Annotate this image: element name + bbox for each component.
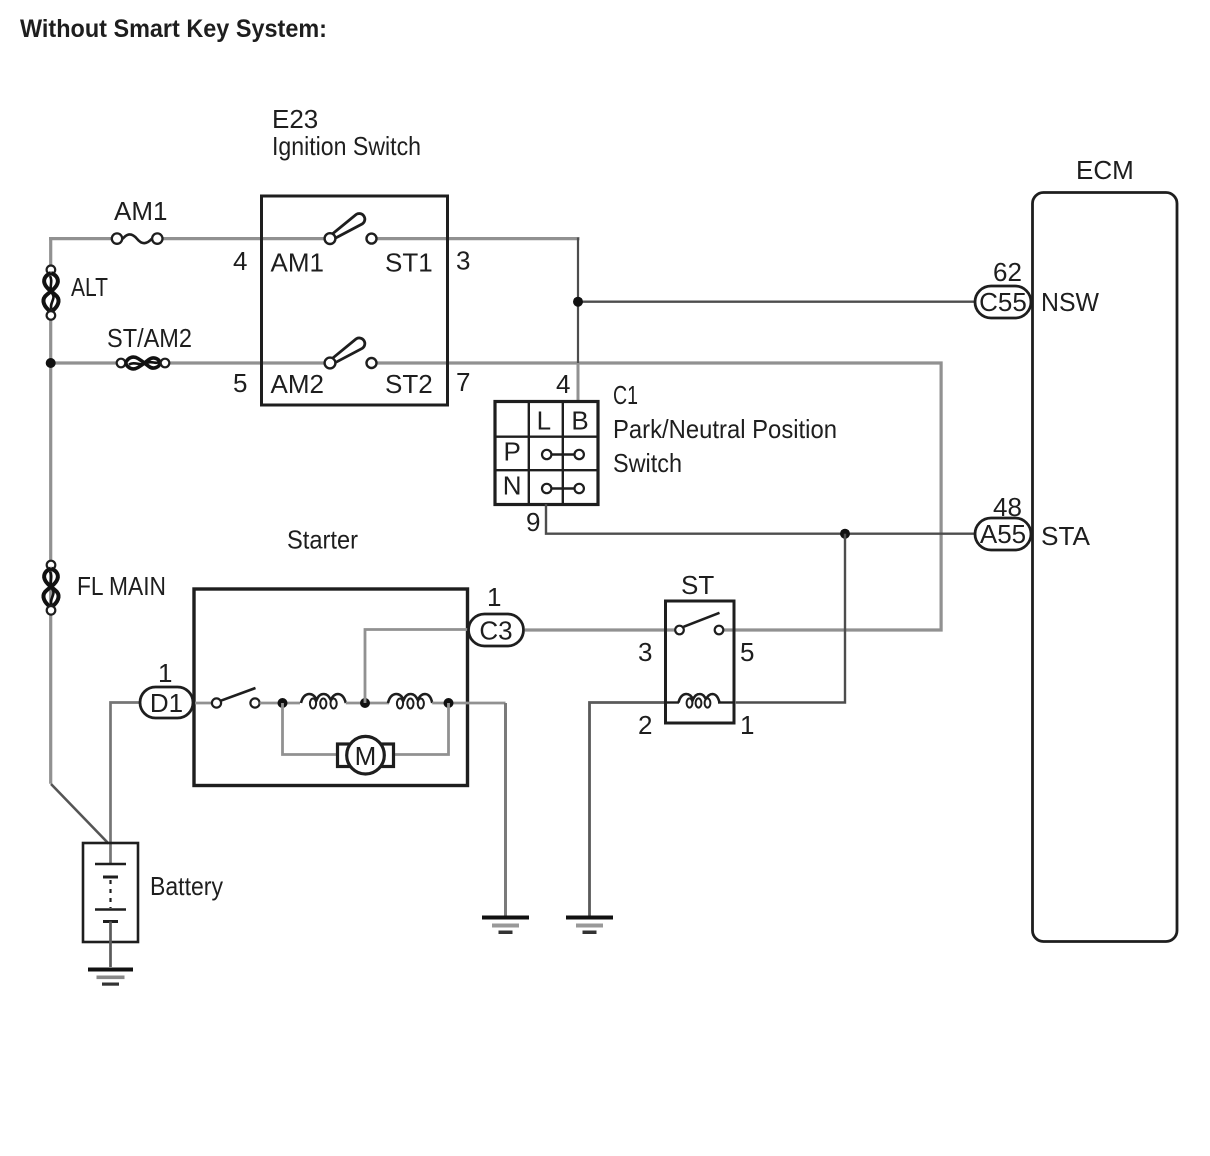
svg-text:AM1: AM1 bbox=[271, 248, 324, 278]
battery box bbox=[83, 843, 138, 942]
wire ST2 row mid segment bbox=[169, 361, 324, 364]
battery plates bbox=[95, 863, 126, 866]
wire battery negative stem bbox=[109, 922, 112, 968]
wire node to C55 NSW bbox=[578, 301, 976, 303]
fuse AM1 element bbox=[123, 234, 152, 243]
wire relay pin2 to ground bbox=[590, 703, 665, 918]
ECM box bbox=[1033, 193, 1178, 942]
ground relay bbox=[566, 916, 613, 935]
fusible link FL MAIN bottom terminal bbox=[47, 606, 56, 615]
svg-text:1: 1 bbox=[740, 710, 754, 740]
svg-text:FL MAIN: FL MAIN bbox=[77, 571, 166, 601]
svg-text:4: 4 bbox=[556, 369, 570, 399]
relay switch right contact bbox=[715, 626, 724, 635]
node junction left bus / ST2 row bbox=[46, 358, 56, 368]
svg-text:E23: E23 bbox=[272, 104, 318, 134]
svg-text:ST/AM2: ST/AM2 bbox=[107, 323, 192, 353]
svg-text:C3: C3 bbox=[479, 616, 512, 646]
starter switch right contact bbox=[250, 698, 259, 707]
svg-text:1: 1 bbox=[487, 582, 501, 612]
svg-text:62: 62 bbox=[993, 257, 1022, 287]
relay switch lever bbox=[684, 613, 720, 627]
connector D1 bbox=[140, 687, 193, 718]
fusible link FL MAIN element bbox=[44, 569, 58, 608]
svg-text:AM1: AM1 bbox=[114, 196, 167, 226]
svg-text:Switch: Switch bbox=[613, 448, 682, 478]
wire C3 to relay pin 3 bbox=[525, 628, 675, 631]
fusible link ST/AM2 element bbox=[126, 357, 161, 368]
svg-text:C55: C55 bbox=[979, 287, 1027, 317]
svg-text:ST1: ST1 bbox=[385, 248, 433, 278]
svg-text:ECM: ECM bbox=[1076, 155, 1134, 185]
wire ST2 output to relay vertical bbox=[377, 363, 941, 630]
wire AM1 row mid segment bbox=[163, 237, 325, 240]
wire ST1 output to node bbox=[377, 237, 580, 240]
fusible link ALT top terminal bbox=[47, 266, 56, 275]
svg-text:Starter: Starter bbox=[287, 525, 358, 555]
wire coil to node C bbox=[432, 702, 505, 705]
ignition switch box E23 bbox=[262, 196, 448, 405]
relay coil leads bbox=[666, 701, 680, 703]
svg-text:ST2: ST2 bbox=[385, 369, 433, 399]
motor M brushes bbox=[338, 744, 352, 767]
fusible link ALT element bbox=[44, 273, 58, 312]
coil starter pull-in bbox=[388, 694, 432, 703]
connector C3 bbox=[469, 614, 524, 646]
svg-text:D1: D1 bbox=[150, 688, 183, 718]
ground starter motor bbox=[482, 916, 529, 935]
fusible link ALT bottom terminal bbox=[47, 311, 56, 320]
starter switch lever bbox=[221, 688, 256, 701]
coil starter hold-in bbox=[301, 694, 346, 703]
wire AM1 row left segment bbox=[49, 237, 112, 240]
node junction NSW branch bbox=[573, 297, 583, 307]
svg-text:M: M bbox=[355, 741, 377, 771]
svg-text:A55: A55 bbox=[980, 519, 1026, 549]
svg-text:ALT: ALT bbox=[71, 272, 108, 302]
wire between coils bbox=[346, 702, 389, 705]
wire ground stem starter bbox=[504, 703, 507, 917]
wire STA branch down to relay coil pin1 bbox=[736, 534, 845, 703]
fuse AM1 left terminal bbox=[112, 233, 122, 243]
svg-text:L: L bbox=[537, 406, 551, 436]
svg-text:ST: ST bbox=[681, 570, 714, 600]
svg-text:5: 5 bbox=[740, 637, 754, 667]
fusible link FL MAIN top terminal bbox=[47, 561, 56, 570]
node junction STA branch bbox=[840, 529, 850, 539]
svg-text:N: N bbox=[503, 471, 522, 501]
svg-text:B: B bbox=[571, 406, 588, 436]
wire ST2 row left segment bbox=[51, 361, 117, 364]
fusible link ST/AM2 left terminal bbox=[117, 359, 126, 368]
connector C1 box grid bbox=[495, 402, 598, 505]
node junction starter A bbox=[278, 698, 288, 708]
svg-text:4: 4 bbox=[233, 246, 247, 276]
starter switch left contact bbox=[212, 698, 221, 707]
svg-text:7: 7 bbox=[456, 367, 470, 397]
wire left vertical bus upper bbox=[49, 237, 52, 266]
svg-text:3: 3 bbox=[456, 246, 470, 276]
wire battery to D1 bbox=[111, 703, 141, 865]
wire left vertical bus mid bbox=[49, 320, 52, 784]
svg-text:Without Smart Key System:: Without Smart Key System: bbox=[20, 15, 327, 43]
starter box bbox=[194, 589, 468, 786]
svg-text:5: 5 bbox=[233, 368, 247, 398]
switch AM1-ST1 left contact bbox=[325, 233, 336, 244]
wire motor loop right bbox=[392, 703, 449, 755]
wire D1 to starter switch bbox=[195, 702, 212, 705]
relay switch left contact bbox=[675, 626, 684, 635]
svg-text:2: 2 bbox=[638, 710, 652, 740]
contact P row link bbox=[549, 453, 577, 455]
wire ST1 branch vertical to C1 pin4 bbox=[577, 238, 579, 365]
connector A55 bbox=[975, 518, 1031, 550]
relay coil bbox=[679, 694, 720, 703]
wire diagonal bus to battery bbox=[51, 784, 109, 844]
svg-text:Park/Neutral Position: Park/Neutral Position bbox=[613, 414, 837, 444]
switch AM1-ST1 lever bbox=[332, 214, 365, 239]
svg-text:Battery: Battery bbox=[150, 871, 223, 901]
svg-text:C1: C1 bbox=[613, 380, 638, 410]
switch AM2-ST2 left contact bbox=[325, 358, 336, 369]
svg-text:Ignition Switch: Ignition Switch bbox=[272, 131, 421, 161]
connector C55 bbox=[975, 286, 1031, 318]
ground battery bbox=[88, 968, 133, 986]
svg-text:3: 3 bbox=[638, 637, 652, 667]
fusible link ST/AM2 right terminal bbox=[161, 359, 170, 368]
motor M body bbox=[347, 736, 385, 774]
contact N row link bbox=[549, 487, 577, 489]
wire node B up to C3 bbox=[365, 630, 468, 704]
svg-text:1: 1 bbox=[158, 658, 172, 688]
switch AM1-ST1 right contact bbox=[367, 234, 377, 244]
switch AM2-ST2 right contact bbox=[367, 358, 377, 368]
svg-text:STA: STA bbox=[1041, 521, 1091, 551]
switch AM2-ST2 lever bbox=[332, 338, 365, 363]
node junction starter B bbox=[360, 698, 370, 708]
fuse AM1 right terminal bbox=[152, 233, 162, 243]
svg-text:NSW: NSW bbox=[1041, 287, 1099, 317]
node junction starter C bbox=[444, 698, 454, 708]
wire motor loop left bbox=[283, 703, 341, 755]
svg-text:9: 9 bbox=[526, 507, 540, 537]
relay ST box bbox=[666, 601, 735, 723]
svg-text:P: P bbox=[504, 437, 521, 467]
wire switch to node bbox=[260, 702, 300, 705]
wire C1 pin9 to A55 STA bbox=[546, 504, 976, 534]
svg-text:AM2: AM2 bbox=[271, 369, 324, 399]
